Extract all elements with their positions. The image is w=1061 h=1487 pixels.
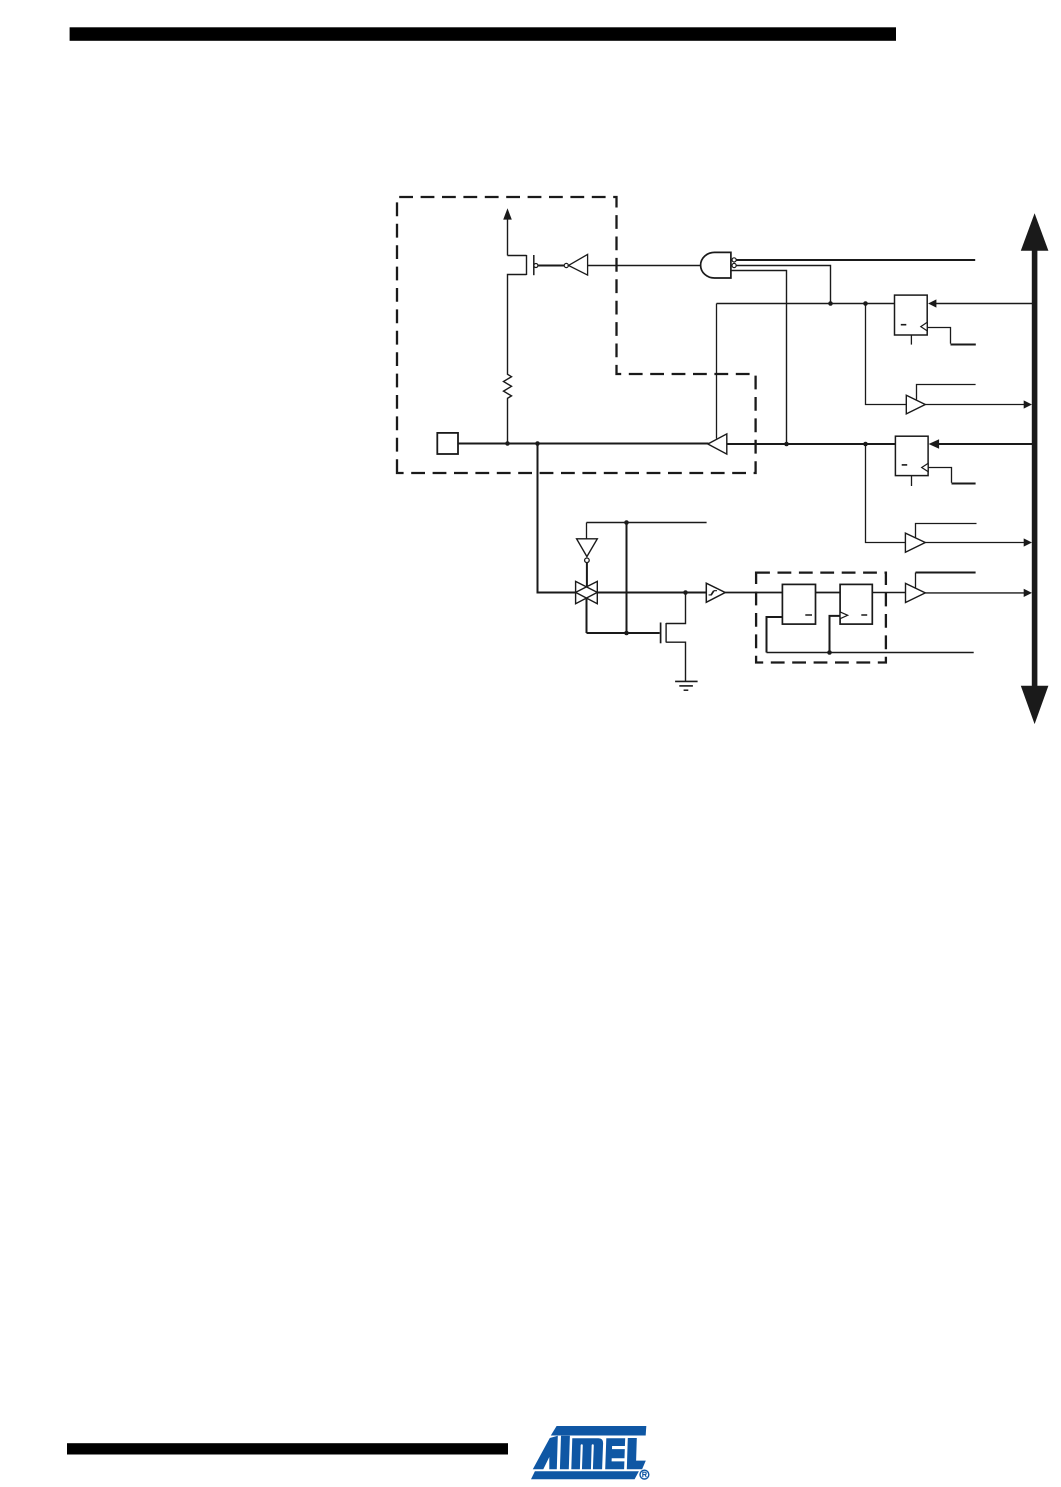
pad xyxy=(437,433,458,454)
latch 2 xyxy=(830,584,873,652)
ground xyxy=(675,681,698,690)
node: NMOS gate junction xyxy=(624,631,629,636)
inverter (pull-up enable) xyxy=(564,254,587,275)
node: NMOS drain junction xyxy=(683,590,688,595)
wire: transmission gate to schmitt trigger xyxy=(597,592,706,594)
pull-down NMOS transistor xyxy=(661,593,686,682)
node: clock junction xyxy=(827,650,832,655)
wire: WRx clock xyxy=(928,468,976,484)
wire: AND input from DDxn xyxy=(736,266,830,304)
wire: synchronizer clock xyxy=(767,652,974,654)
wire: pin input path (pad to transmission gate) xyxy=(538,444,576,593)
schmitt trigger xyxy=(706,583,725,602)
output driver buffer (tri-state) xyxy=(708,304,727,455)
D flip-flop DDxn xyxy=(895,295,928,345)
wire: latch 2 output xyxy=(872,592,905,594)
node: PORTxn to AND gate xyxy=(784,442,789,447)
tri-state buffer RPx (PORTxn read) xyxy=(866,444,1033,552)
wire: SLEEP to NMOS gate xyxy=(626,523,628,634)
wire: SLEEP line xyxy=(587,523,707,540)
node: DDxn read tap xyxy=(863,301,868,306)
inverter (sleep) xyxy=(577,539,598,587)
tri-state buffer PINxn read xyxy=(906,573,1033,603)
node: pull-up junction xyxy=(505,441,510,446)
wire: schmitt trigger to synchronizer xyxy=(725,592,782,594)
wire: PORTxn net xyxy=(727,443,896,445)
data bus xyxy=(1021,213,1049,724)
wire: DDxn net xyxy=(717,303,895,305)
wire: pad net to output driver xyxy=(458,443,709,445)
D flip-flop PORTxn xyxy=(895,436,928,486)
wire: NMOS gate line xyxy=(587,632,660,634)
wire: PUD line xyxy=(736,259,975,261)
wire: DDxn D input from bus xyxy=(928,299,1032,307)
header rule xyxy=(70,27,896,41)
wire: AND gate output to inverter input xyxy=(588,265,701,267)
wire: PORTxn D input from bus xyxy=(929,439,1032,448)
resistor (pull-up) xyxy=(504,374,512,443)
dashed box: pull-up and output driver section xyxy=(397,197,756,473)
VCC symbol xyxy=(503,208,512,255)
tri-state buffer RDx (DDxn read) xyxy=(866,304,1033,414)
latch 1 xyxy=(767,584,816,652)
wire: AND input from PORTxn xyxy=(731,271,787,444)
wire: WDx clock xyxy=(927,328,976,345)
wire: inverter output to PMOS gate xyxy=(538,265,564,267)
wire: latch 1 to latch 2 xyxy=(816,592,841,594)
Atmel logo xyxy=(531,1426,649,1479)
pull-up PMOS transistor xyxy=(508,255,538,375)
transmission gate xyxy=(576,581,598,633)
footer rule xyxy=(67,1443,508,1454)
dashed box: synchronizer xyxy=(756,573,886,663)
node: DDxn to AND gate xyxy=(828,301,833,306)
node: PORTxn read tap xyxy=(863,442,868,447)
AND gate (pull-up control, mirrored) xyxy=(701,252,737,278)
node: pin input tap xyxy=(535,441,540,446)
node: SLEEP junction xyxy=(624,520,629,525)
